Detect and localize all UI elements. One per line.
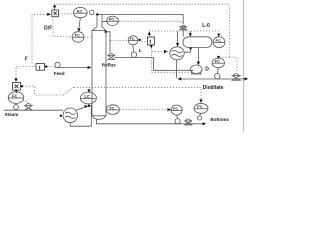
wire dashed B8 to B9: [120, 109, 168, 111]
svg-text:PC: PC: [109, 18, 115, 22]
arrow from box bottom down: [150, 44, 152, 47]
svg-text:FC: FC: [75, 34, 80, 38]
svg-text:Distillate: Distillate: [203, 85, 224, 91]
feed measurement t box: [36, 64, 45, 72]
reboiler liquid return: [70, 106, 91, 126]
orifice circle on feed line: [55, 62, 60, 67]
svg-text:F: F: [25, 56, 29, 62]
reflux valve: [108, 53, 114, 59]
node dot steam inlet: [60, 115, 62, 117]
instrument bubble BL reflux flow: [128, 36, 138, 52]
wire dashed dot to orifice: [48, 66, 55, 68]
distillate line with left arrow: [181, 78, 245, 80]
instrument bubble B7: [80, 92, 96, 105]
feed line: [55, 67, 88, 69]
X1 multiplier box: [52, 10, 59, 17]
arrow into bubble B6 top: [217, 34, 220, 37]
instrument bubble B3 steam flow controller: [8, 92, 24, 104]
reboiler vapor return: [76, 106, 92, 110]
arrow into drum top: [189, 31, 191, 34]
node dot right of t box: [45, 65, 47, 67]
instrument bubble B2 reflux ratio controller: [72, 32, 84, 43]
svg-text:t: t: [39, 65, 41, 71]
instrument bubble B10: [194, 103, 208, 113]
reflux piping from column top: [105, 31, 107, 33]
instrument bubble B6: [213, 37, 225, 48]
L-0 signal dashed line: [149, 31, 219, 35]
svg-text:FC: FC: [12, 93, 18, 98]
svg-text:FC: FC: [130, 37, 135, 41]
svg-text:D/F: D/F: [44, 26, 52, 32]
svg-text:Reflux: Reflux: [102, 62, 116, 67]
X2 multiplier box: [13, 83, 21, 91]
svg-text:AC: AC: [77, 8, 83, 13]
wire dashed feed signal into X1: [32, 14, 47, 63]
drum outlet to pump: [197, 48, 199, 62]
svg-text:D: D: [205, 67, 209, 73]
wire dashed from box bottom down to y72.3 and right: [152, 48, 193, 72]
instrument bubble FCD: [212, 58, 224, 73]
wire drum outlet elbow into LC right: [189, 47, 191, 49]
arrow up into top line from X1: [54, 6, 56, 10]
column vessel: [92, 15, 106, 119]
arrow from box top up to L-0 line: [148, 35, 150, 38]
svg-text:FC: FC: [216, 38, 221, 43]
B10 stem and circle: [199, 113, 202, 115]
wire vapor line solid: [97, 15, 184, 25]
svg-text:FC: FC: [197, 104, 202, 109]
orifice circle on bottoms line: [175, 119, 180, 124]
svg-text:FC: FC: [215, 59, 220, 64]
node dot right of BL: [139, 39, 141, 41]
node junction at neck top: [96, 13, 98, 15]
wire dashed X2 to B7 and B10: [23, 86, 201, 100]
instrument bubble B8 temperature controller: [106, 105, 119, 115]
LC condenser circle under drum: [170, 31, 184, 60]
valve on vapor line: [179, 25, 187, 37]
steam line: [4, 109, 64, 111]
wire X2 down arrow into B3: [15, 89, 17, 92]
svg-text:L-0: L-0: [202, 23, 210, 29]
orifice circle on vapor line: [89, 10, 94, 15]
instrument bubble B9: [171, 105, 182, 115]
wire dashed top feedforward from X1 to distillate FC: [57, 4, 238, 71]
svg-text:Feed: Feed: [54, 71, 65, 76]
svg-text:LC: LC: [84, 94, 90, 99]
svg-text:FC: FC: [173, 107, 178, 111]
wire dashed into t box from left and down to X2: [16, 67, 36, 79]
instrument bubble B4 top composition controller: [73, 7, 87, 17]
orifice circle on reflux line: [131, 52, 136, 57]
svg-text:Bottoms: Bottoms: [210, 117, 229, 122]
wire dashed arrow into LC left: [152, 51, 164, 53]
valve on bottoms line: [185, 119, 193, 125]
orifice circle on steam line: [14, 105, 19, 110]
wire B4 down arrow into B2: [79, 18, 80, 28]
svg-text:t: t: [149, 40, 151, 46]
valve on distillate line: [232, 74, 240, 81]
svg-text:Steam: Steam: [5, 112, 19, 117]
svg-text:TC: TC: [109, 105, 114, 110]
reboiler circle: [63, 108, 78, 123]
reflux drum: [183, 37, 212, 48]
orifice circle on distillate line: [215, 74, 220, 79]
bottoms outlet wire: [97, 119, 204, 124]
B3 stem to orifice: [15, 103, 17, 104]
instrument bubble B5 pressure controller: [102, 16, 118, 25]
pump: [191, 65, 203, 74]
svg-text:L: L: [139, 48, 142, 54]
wire B2 right dashes to column: [84, 36, 92, 38]
LC bottom stem down: [176, 60, 178, 78]
selector box with t: [148, 37, 155, 46]
steam valve: [25, 104, 33, 111]
node dot right of X2: [21, 85, 23, 87]
border right: [243, 0, 245, 132]
reflux line: [115, 57, 194, 70]
arrow into FCD bubble top: [217, 56, 220, 59]
wire dashed B3 to steam valve: [23, 101, 28, 102]
wire dashed into selector from reflux measurement: [111, 41, 148, 42]
wire dashed X1 bottom to bubble B2: [53, 17, 72, 37]
wire dashed B5 to vapor valve: [119, 21, 184, 24]
wire dashed X1 right to bubble B4: [59, 13, 74, 15]
